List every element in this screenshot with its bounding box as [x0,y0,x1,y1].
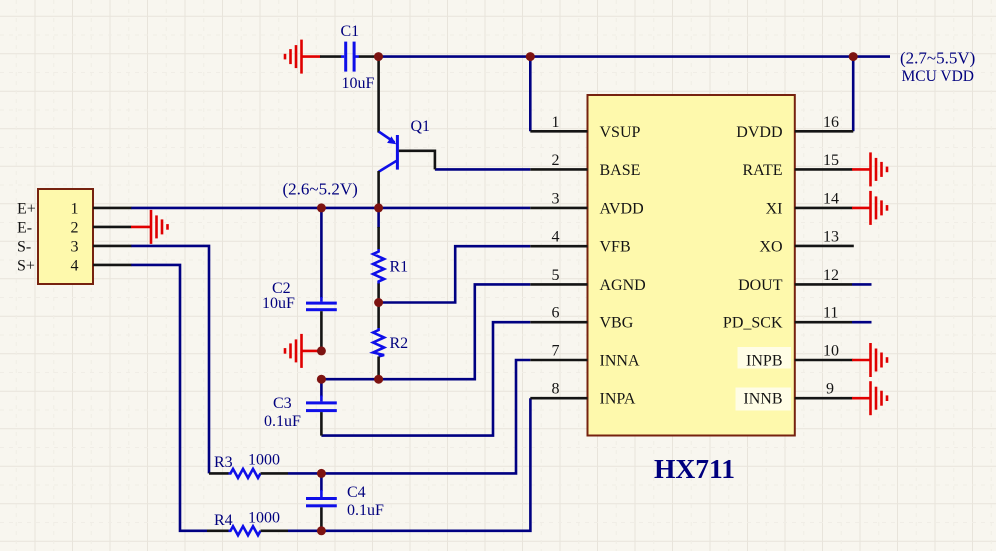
svg-text:INNA: INNA [600,353,640,370]
wire: Q1 base to U1 pin 2 [435,168,530,171]
U1 pin 6 VBG [530,305,633,332]
junction: top rail / pin 16 drop [849,52,858,61]
wire: VDD top rail [379,55,891,58]
svg-text:1000: 1000 [248,510,280,527]
U1 pin 12 DOUT [738,267,852,294]
svg-text:DOUT: DOUT [738,277,783,294]
ground at C2/C3 (AGND) [285,334,320,368]
svg-text:10uF: 10uF [342,75,375,92]
connector J1 body [38,189,93,284]
svg-text:8: 8 [552,381,560,398]
svg-text:16: 16 [823,114,839,131]
junction: R2 bottom / AGND rail [374,375,383,384]
svg-text:(2.6~5.2V): (2.6~5.2V) [283,180,358,199]
wire: stub on U1 pin 11 PD_SCK [852,321,872,324]
J1 pin 1 / net E+ [17,200,131,217]
label U1 title HX711 [654,453,735,484]
svg-text:14: 14 [823,190,839,207]
svg-text:0.1uF: 0.1uF [347,502,384,519]
ground at C1 input [285,40,321,74]
svg-text:PD_SCK: PD_SCK [723,315,783,332]
wire: C4 top lead [320,473,323,491]
svg-text:AVDD: AVDD [600,200,644,217]
svg-text:10uF: 10uF [262,295,295,312]
svg-text:11: 11 [823,305,838,322]
J1 pin 4 / net S+ [17,257,131,274]
svg-text:12: 12 [823,267,839,284]
svg-text:MCU VDD: MCU VDD [902,68,975,85]
svg-text:10: 10 [823,343,839,360]
svg-text:15: 15 [823,152,839,169]
wire: top rail to U1 pin 16 [852,57,855,132]
U1 pin 11 PD_SCK [723,305,852,332]
wire: S- from J1 pin 3 to R3 [131,246,209,474]
svg-text:R1: R1 [390,259,409,276]
svg-text:VSUP: VSUP [600,124,641,141]
U1 pin 1 VSUP [530,114,640,141]
svg-text:INPA: INPA [600,391,636,408]
label C1 [341,23,360,40]
junction: top rail / pin 1 drop [526,52,535,61]
capacitor C3 [306,396,337,436]
junction: AVDD rail / C2 [317,203,326,212]
label R4 [214,512,233,529]
resistor R3 [209,469,288,478]
U1 pin 2 BASE [530,152,640,179]
label Q1 [411,118,431,135]
svg-text:R4: R4 [214,512,233,529]
J1 pin 3 / net S- [17,238,131,255]
junction: R1 / R2 / VFB [374,298,383,307]
svg-text:R3: R3 [214,454,233,471]
net label (2.6~5.2V) [283,180,358,199]
capacitor C2 [306,297,337,351]
U1 pin 9 INNB [736,381,853,411]
U1 pin 3 AVDD [530,190,643,217]
svg-text:R2: R2 [390,335,409,352]
U1 pin 10 INPB [738,343,853,370]
capacitor C4 [306,490,337,531]
svg-text:1: 1 [552,114,560,131]
wire: C2 top lead from AVDD rail [320,208,323,298]
svg-text:4: 4 [552,229,560,246]
U1 pin 15 RATE [743,152,853,179]
svg-text:3: 3 [71,238,79,255]
net label (2.7~5.5V) [900,49,975,68]
resistor R4 [207,526,288,535]
label R2 [390,335,409,352]
ground at U1 pin 10 INPB [852,343,887,377]
value C2 10uF [262,295,295,312]
wire: C3 bottom to U1 pin 6 VBG [321,322,530,435]
U1 pin 8 INPA [530,381,636,408]
svg-text:E+: E+ [17,200,36,217]
net label MCU VDD [902,68,975,85]
svg-text:4: 4 [71,257,79,274]
svg-text:1: 1 [71,200,79,217]
svg-text:E-: E- [17,219,32,236]
wire: AGND node down to C3 [320,379,323,396]
wire: top rail to U1 pin 1 [529,57,532,132]
svg-text:6: 6 [552,305,560,322]
svg-text:C4: C4 [347,484,366,501]
resistor R2 [373,303,384,380]
svg-text:3: 3 [552,190,560,207]
svg-text:XI: XI [766,200,783,217]
svg-text:VBG: VBG [600,315,634,332]
svg-text:VFB: VFB [600,239,631,256]
ground at J1 pin 2 (E-) [131,210,168,244]
svg-text:C3: C3 [273,395,292,412]
U1 pin 7 INNA [530,343,640,370]
value C3 0.1uF [264,413,301,430]
junction: AVDD rail / Q1 emitter [374,203,383,212]
svg-text:Q1: Q1 [411,118,431,135]
wire: AVDD rail (E+ to U1 pin 3) [131,207,530,210]
transistor Q1 [379,57,435,208]
svg-text:INPB: INPB [746,353,782,370]
junction: C2 / ground / C3 column [317,346,326,355]
svg-text:1000: 1000 [248,452,280,469]
junction: R4 / C4 bottom / INPA net [317,526,326,535]
junction: C1 / Q1 collector / top rail [374,52,383,61]
label C3 [273,395,292,412]
wire: S+ from J1 pin 4 to R4 [131,265,207,531]
label R1 [390,259,409,276]
value R3 1000 [248,452,280,469]
label C4 [347,484,366,501]
capacitor C1 [320,42,376,72]
wire: R4 to C4 node to U1 pin 8 INPA [288,398,530,531]
svg-text:13: 13 [823,229,839,246]
junction: C3 top / AGND rail [317,375,326,384]
value R4 1000 [248,510,280,527]
svg-text:(2.7~5.5V): (2.7~5.5V) [900,49,975,68]
svg-text:XO: XO [759,239,782,256]
U1 pin 13 XO [759,229,853,256]
svg-text:AGND: AGND [600,277,646,294]
svg-text:S+: S+ [17,257,35,274]
U1 pin 4 VFB [530,229,630,256]
resistor R1 [373,227,384,303]
junction: R3 / C4 top / INNA net [317,469,326,478]
svg-text:2: 2 [552,152,560,169]
U1 pin 14 XI [766,190,853,217]
wire: R1 top from AVDD junction [377,208,380,228]
wire: AGND net to U1 pin 5 [321,284,530,379]
wire: R3 to C4 node to U1 pin 7 INNA [288,360,530,473]
wire: R1/R2 node to U1 pin 4 VFB [379,246,531,302]
J1 pin 2 / net E- [17,219,131,236]
ground at U1 pin 15 RATE [852,152,887,186]
svg-text:2: 2 [71,219,79,236]
U1 pin 16 DVDD [736,114,853,141]
svg-text:RATE: RATE [743,162,783,179]
label R3 [214,454,233,471]
IC U1 HX711 body [588,95,795,436]
svg-text:7: 7 [552,343,560,360]
ground at U1 pin 9 INNB [852,381,887,415]
svg-text:INNB: INNB [743,391,782,408]
ground at U1 pin 14 XI [852,191,887,225]
svg-text:BASE: BASE [600,162,641,179]
value C1 10uF [342,75,375,92]
svg-text:DVDD: DVDD [736,124,782,141]
svg-text:HX711: HX711 [654,453,735,484]
wire: stub on U1 pin 12 DOUT [852,283,872,286]
svg-text:S-: S- [17,238,31,255]
svg-text:5: 5 [552,267,560,284]
U1 pin 5 AGND [530,267,645,294]
value C4 0.1uF [347,502,384,519]
label C2 [272,280,291,297]
svg-text:C1: C1 [341,23,360,40]
svg-text:9: 9 [826,381,834,398]
svg-text:0.1uF: 0.1uF [264,413,301,430]
